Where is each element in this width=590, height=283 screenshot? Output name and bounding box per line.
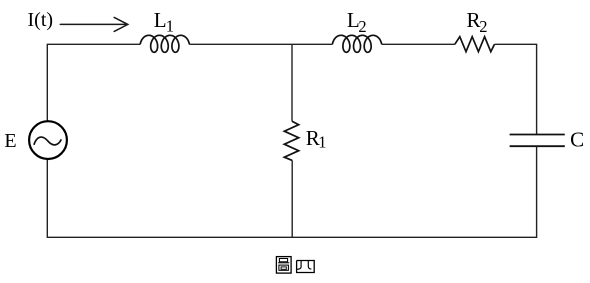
- svg-text:E: E: [4, 130, 16, 152]
- wire R1 bottom to bottom wire: [291, 160, 293, 237]
- svg-text:L: L: [154, 8, 167, 32]
- svg-text:I(t): I(t): [28, 9, 54, 31]
- bottom wire left half and left rail up to source: [47, 160, 292, 238]
- wire L1 to L2 through node: [189, 43, 332, 45]
- wire node to R1 top: [291, 44, 293, 121]
- inductor L2: [332, 35, 381, 52]
- source E circle: [29, 121, 67, 159]
- caption glyph 四: [297, 261, 315, 273]
- wire R2 to top-right corner down to capacitor: [495, 44, 537, 134]
- resistor R2: [455, 37, 495, 52]
- wire capacitor to bottom-right corner: [292, 147, 537, 238]
- svg-text:2: 2: [358, 17, 366, 36]
- wire top-left segment: [47, 44, 140, 121]
- svg-text:C: C: [570, 127, 584, 151]
- resistor R1: [284, 121, 298, 160]
- source sine wave: [34, 137, 61, 145]
- current arrow: [60, 17, 128, 31]
- svg-text:1: 1: [166, 16, 174, 35]
- wire L2 to R2: [382, 43, 455, 45]
- caption glyph 圖: [276, 257, 291, 274]
- svg-text:2: 2: [479, 17, 487, 36]
- inductor L1: [140, 35, 189, 52]
- capacitor C plates: [510, 135, 565, 147]
- svg-text:1: 1: [318, 132, 326, 151]
